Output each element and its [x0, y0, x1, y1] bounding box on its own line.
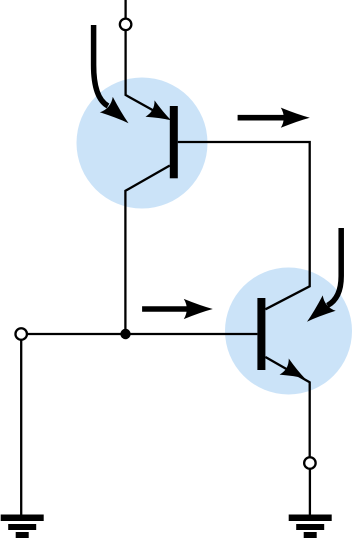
highlight circle around transistor Q2	[225, 268, 352, 395]
current arrow: into Q2 base (thick straight)	[142, 299, 213, 319]
node: junction dot	[120, 329, 130, 339]
node: top terminal	[120, 19, 132, 31]
transistor Q2 base bar	[257, 298, 265, 370]
Q1 emitter arrowhead (PNP, pointing into base bar)	[146, 100, 176, 128]
ground (left)	[1, 515, 44, 539]
node: left terminal	[15, 328, 27, 340]
wire: Q1 collector down to junction	[125, 166, 169, 335]
wire: left terminal down to ground	[20, 340, 22, 515]
ground (right)	[289, 515, 332, 539]
current arrow: into Q2 collector (thick curved)	[301, 228, 342, 329]
wire: bottom terminal lead to ground	[309, 469, 311, 515]
wire: left terminal to Q2 base	[27, 333, 257, 335]
node: bottom right terminal	[304, 457, 316, 469]
current arrow: into Q1 emitter (thick curved)	[94, 25, 135, 131]
highlight circle around transistor Q1	[77, 78, 208, 209]
Q2 emitter arrowhead (NPN, pointing out)	[280, 359, 310, 387]
current arrow: out of Q1 base (thick straight)	[238, 108, 310, 128]
wire: Q1 emitter lead	[126, 31, 168, 119]
wire: Q2 emitter lead	[265, 357, 309, 457]
transistor Q1 base bar	[170, 106, 178, 178]
wire: top terminal lead	[124, 0, 126, 18]
wire: Q1 base across to Q2 collector	[178, 142, 310, 309]
